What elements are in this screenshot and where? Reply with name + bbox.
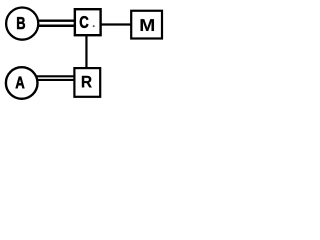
wire double line A=R upper xyxy=(37,75,77,77)
node M box xyxy=(131,11,162,39)
node A circle xyxy=(6,67,38,99)
node R box xyxy=(74,68,100,97)
node C label period dot xyxy=(93,25,95,27)
node M label xyxy=(141,19,154,31)
node C label xyxy=(80,16,89,28)
node B label xyxy=(17,17,25,29)
wire double line B=C upper xyxy=(37,20,77,22)
node R label xyxy=(82,76,92,87)
wire double line A=R lower xyxy=(37,79,77,81)
node C box xyxy=(75,9,101,35)
node B circle xyxy=(6,8,38,40)
wire double line B=C lower xyxy=(37,25,77,27)
node A label xyxy=(16,77,25,89)
wire C to R vertical xyxy=(85,34,87,70)
wire C to M xyxy=(100,23,133,25)
